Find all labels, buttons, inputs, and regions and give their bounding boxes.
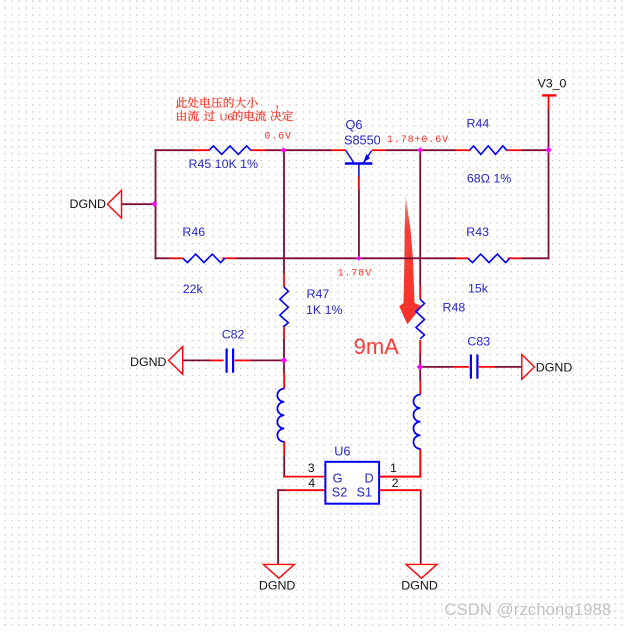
wire C83 right segment: [495, 366, 522, 368]
wire branch2 vertical upper: [419, 150, 421, 286]
resistor R48 pins: [419, 286, 421, 299]
svg-text:DGND: DGND: [401, 578, 438, 592]
svg-text:1.78+0.6V: 1.78+0.6V: [387, 135, 449, 146]
svg-text:S8550: S8550: [344, 134, 381, 148]
node junction 0.6V: [281, 147, 287, 153]
svg-text:R45 10K 1%: R45 10K 1%: [189, 157, 259, 171]
svg-text:R44: R44: [467, 116, 490, 130]
svg-text:Q6: Q6: [346, 118, 363, 132]
wire V3_0 vertical: [548, 109, 550, 260]
resistor R46 pins: [169, 257, 183, 259]
svg-text:S2: S2: [332, 486, 348, 500]
power V3_0 symbol bar: [542, 94, 556, 96]
svg-text:R46: R46: [182, 225, 205, 239]
wire branch2 R48-junction: [419, 353, 421, 368]
svg-text:3: 3: [308, 461, 315, 475]
resistor R43 pins: [456, 257, 469, 259]
wire lower bus left segment: [155, 257, 171, 259]
wire DGND stub left: [122, 203, 157, 205]
ground DGND at C82: [169, 347, 183, 375]
svg-text:DGND: DGND: [70, 197, 107, 211]
ground DGND at C83: [522, 355, 535, 380]
svg-text:C83: C83: [467, 335, 490, 349]
capacitor C83 plates: [470, 355, 472, 379]
inductor L-left pins: [283, 373, 285, 389]
svg-text:4: 4: [308, 476, 315, 490]
op-amp U6 (MOSFET array) box: [325, 462, 379, 504]
node junction V3_0: [545, 147, 551, 153]
node junction DGND-left bus: [152, 201, 158, 207]
svg-text:68Ω 1%: 68Ω 1%: [467, 172, 511, 186]
U6 pin 2 wire: [379, 489, 421, 491]
svg-text:G: G: [333, 472, 343, 486]
ground DGND left-middle: [107, 190, 121, 218]
svg-text:DGND: DGND: [130, 355, 167, 369]
transistor Q6 pins: [331, 149, 346, 151]
wire branch1 R47-C82 junction: [283, 339, 285, 374]
resistor R43 body: [468, 254, 510, 263]
svg-text:DGND: DGND: [536, 360, 573, 374]
resistor R44 body: [470, 146, 507, 155]
svg-text:22k: 22k: [183, 282, 204, 296]
wire pin4 to ground vertical: [277, 489, 279, 564]
inductor L-right pins and pin1 wire: [379, 449, 420, 477]
wire C82 left segment: [182, 359, 210, 361]
resistor R47 body: [280, 287, 289, 327]
node junction emitter: [417, 147, 423, 153]
transistor Q6 body: [345, 151, 373, 177]
annotation chinese line2: [177, 110, 293, 121]
wire lower bus middle segment: [236, 257, 456, 259]
U6 pin 3 wire: [283, 476, 326, 478]
capacitor C82 pins: [210, 359, 223, 361]
node junction 1.78V: [356, 256, 361, 261]
wire R43 right segment: [521, 257, 549, 259]
resistor R44 pins: [456, 149, 471, 151]
svg-text:U6: U6: [220, 111, 234, 123]
svg-text:V3_0: V3_0: [538, 77, 567, 91]
svg-text:U6: U6: [334, 444, 350, 458]
svg-text:9mA: 9mA: [354, 334, 400, 359]
resistor R45 pins: [193, 149, 209, 151]
ground DGND bottom-right: [406, 564, 437, 578]
wire left bus vertical: [155, 149, 157, 259]
wire pin2 to ground vertical: [420, 489, 422, 564]
inductor right coil: [413, 395, 420, 449]
resistor R48 body: [416, 299, 425, 339]
node junction C82: [281, 357, 288, 364]
wire C83 left segment: [419, 366, 453, 368]
svg-text:S1: S1: [357, 486, 373, 500]
svg-text:15k: 15k: [468, 281, 489, 295]
svg-text:1K 1%: 1K 1%: [306, 303, 343, 317]
svg-text:0.6V: 0.6V: [264, 132, 292, 143]
svg-text:DGND: DGND: [259, 578, 296, 592]
svg-text:C82: C82: [222, 327, 245, 341]
wire branch1 vertical upper: [283, 150, 285, 273]
wire C82 right segment: [250, 359, 285, 361]
svg-text:2: 2: [392, 476, 399, 490]
wire top bus emitter-R44 segment: [386, 149, 456, 151]
svg-text:R47: R47: [307, 287, 330, 301]
resistor R47 pins: [283, 273, 285, 287]
wire pin4 stub: [278, 489, 286, 491]
capacitor C83 pins: [453, 366, 469, 368]
svg-text:1.78V: 1.78V: [338, 268, 373, 279]
wire top bus left segment: [155, 149, 195, 151]
node junction C83: [417, 364, 423, 370]
capacitor C82 plates: [226, 349, 228, 373]
svg-text:R48: R48: [443, 300, 466, 314]
annotation current-direction arrow: [399, 197, 422, 325]
svg-text:R43: R43: [466, 225, 489, 239]
inductor left coil: [277, 389, 284, 442]
svg-text:1: 1: [390, 461, 397, 475]
wire branch1 coil to pin3 corner: [283, 455, 285, 478]
svg-text:D: D: [365, 472, 374, 486]
resistor R46 body: [183, 254, 225, 263]
wire top bus R44-V3_0 segment: [521, 149, 549, 151]
annotation chinese line1: [176, 97, 278, 109]
wire top bus node-0.6V segment: [266, 149, 332, 151]
svg-text:CSDN @rzchong1988: CSDN @rzchong1988: [445, 601, 612, 619]
U6 pin 4 wire: [285, 489, 326, 491]
resistor R45 body: [209, 146, 251, 155]
wire Q6 collector vertical: [358, 190, 360, 259]
wire branch2 junction-coil: [419, 367, 421, 381]
ground DGND bottom-left: [263, 564, 294, 578]
